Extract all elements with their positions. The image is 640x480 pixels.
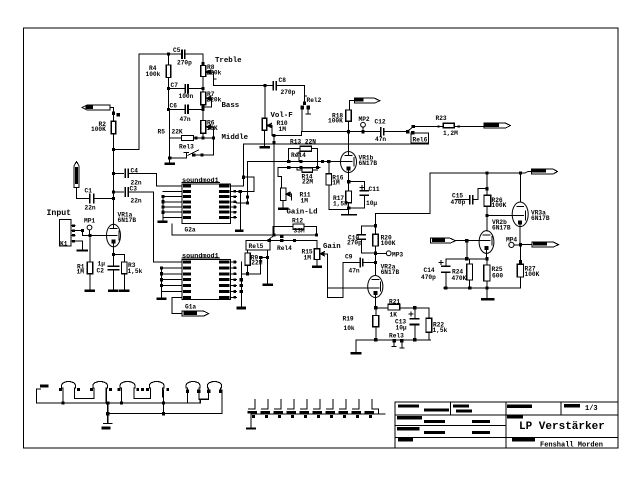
capacitor C12: [380, 128, 382, 136]
wire cathode VR2b row: [446, 258, 487, 260]
connector pin 1: [249, 400, 256, 410]
flag fill G1a: [184, 312, 198, 315]
wire plate to tone stack: [113, 54, 168, 149]
junction dots input area: [81, 229, 84, 232]
potentiometer R11 gain-ld: [281, 188, 287, 201]
svg-text:270p: 270p: [177, 60, 192, 67]
tube VR2b: [479, 231, 494, 254]
svg-text:6N17B: 6N17B: [359, 160, 378, 167]
supply flag B+ VR1b: [354, 98, 380, 103]
heater filament 1: [62, 382, 76, 403]
net flag G1a: [182, 311, 209, 316]
wire Rel5 to ground: [267, 250, 269, 284]
svg-text:470K: 470K: [452, 275, 467, 282]
heater filament 2: [93, 382, 108, 403]
svg-text:C2: C2: [97, 268, 105, 275]
svg-text:C1: C1: [85, 188, 93, 195]
cathode mark VR1b: [347, 166, 351, 170]
svg-text:MP2: MP2: [359, 116, 370, 123]
svg-text:270p: 270p: [281, 89, 296, 96]
resistor R27: [519, 245, 521, 265]
wire G2a row: [171, 224, 173, 235]
cathode mark VR2a: [373, 291, 377, 295]
heater ground bar: [102, 427, 111, 430]
svg-text:1µ: 1µ: [98, 261, 106, 268]
svg-text:C6: C6: [170, 103, 178, 110]
input net flag: [431, 238, 456, 243]
connector pin 9: [353, 400, 360, 410]
heater filament 3: [120, 382, 135, 403]
svg-text:Rel4: Rel4: [277, 245, 292, 252]
svg-text:22M: 22M: [302, 179, 313, 186]
heater pin dots: [59, 388, 62, 391]
connector pin 8: [340, 400, 347, 410]
relay contact Rel3 (lower): [393, 342, 395, 347]
svg-text:10K: 10K: [207, 125, 218, 132]
wire cathode VR1b: [349, 182, 365, 190]
svg-text:10k: 10k: [344, 325, 355, 332]
svg-text:LP Verstärker: LP Verstärker: [519, 421, 605, 433]
svg-text:1,5k: 1,5k: [433, 327, 448, 334]
svg-text:10µ: 10µ: [366, 200, 377, 207]
heater supply bracket: [37, 389, 41, 403]
IC1 pin bars: [183, 185, 191, 188]
capacitor C4: [113, 172, 123, 174]
ground IC1 left: [157, 220, 167, 223]
capacitor C1: [89, 195, 91, 203]
relay contact Rel6 jog: [408, 127, 413, 131]
connector pin 4: [288, 400, 295, 410]
heater pair connector 5-6: [199, 398, 209, 400]
wire ground row: [444, 287, 521, 289]
dot cathode: [347, 180, 350, 183]
flag fill: [86, 106, 94, 109]
svg-text:100K: 100K: [381, 240, 396, 247]
svg-text:Rel3: Rel3: [179, 143, 194, 150]
svg-text:Rel2: Rel2: [307, 97, 322, 104]
heater bus 2: [108, 413, 222, 415]
svg-text:600: 600: [492, 273, 503, 280]
dots plate row: [347, 130, 350, 133]
resistor R16: [328, 161, 330, 173]
ground IC2 right: [237, 307, 246, 310]
flag fill output: [484, 123, 499, 127]
svg-text:1K: 1K: [390, 312, 398, 319]
resistor R24: [469, 259, 471, 264]
svg-text:100n: 100n: [179, 93, 194, 100]
ground IC1 right: [235, 230, 244, 233]
svg-text:R19: R19: [343, 316, 354, 323]
svg-text:470p: 470p: [421, 274, 436, 281]
svg-text:100k: 100k: [146, 71, 161, 78]
test point MP4: [509, 242, 514, 247]
svg-text:1M: 1M: [304, 254, 312, 261]
title block redaction bars: [398, 405, 419, 408]
connector pin 2: [262, 400, 269, 410]
ground R1: [85, 290, 96, 293]
wire grid rail A: [248, 160, 341, 162]
wire VR1b plate row: [302, 131, 381, 133]
input jack K1: [59, 219, 71, 246]
wire VR3a grid to VR2b plate: [487, 215, 512, 217]
junction dots plate rail: [112, 148, 115, 151]
svg-text:Gain-Ld: Gain-Ld: [287, 209, 318, 217]
capacitor C15: [473, 189, 487, 200]
svg-text:Input: Input: [47, 209, 72, 218]
capacitor C6: [169, 108, 186, 110]
heater bus 1: [37, 402, 201, 404]
svg-text:Bass: Bass: [222, 102, 240, 110]
wire flag to R2: [110, 108, 113, 122]
capacitor C8: [272, 82, 274, 90]
heater pair connector 3-4: [134, 397, 151, 399]
relay contact Rel3: [184, 152, 189, 154]
svg-text:C8: C8: [279, 77, 287, 84]
title block: [395, 402, 618, 448]
resistor R17: [346, 191, 352, 203]
svg-text:K1: K1: [60, 241, 68, 248]
wire B+ top rail: [430, 172, 525, 174]
svg-text:R12: R12: [292, 218, 303, 225]
resistor R20: [373, 234, 379, 246]
heater drop h4 to bus2: [163, 390, 165, 414]
heater ground drop: [107, 403, 109, 424]
heater net label bar: [40, 385, 49, 388]
resistor R22: [428, 308, 430, 319]
potentiometer R6 middle: [201, 120, 206, 133]
capacitor C11: [360, 190, 368, 192]
tube VR1a: [107, 224, 121, 247]
connector bus: [251, 413, 385, 415]
dots Rel6: [406, 130, 409, 134]
svg-text:G2a: G2a: [185, 227, 196, 234]
svg-text:1,2M: 1,2M: [443, 130, 458, 137]
svg-text:R23: R23: [436, 115, 447, 122]
svg-text:47n: 47n: [180, 116, 191, 123]
connector pad dashes: [248, 411, 258, 414]
dot treble node: [263, 84, 266, 87]
capacitor C14: [445, 259, 447, 266]
capacitor C10: [362, 226, 376, 235]
label R11 Gain-Ld pot: [281, 188, 292, 207]
svg-text:Vol-F: Vol-F: [271, 112, 293, 120]
connector pin 5: [301, 400, 308, 410]
potentiometer R10 Vol-F: [262, 118, 267, 130]
resistor R13: [300, 146, 312, 151]
connector ground: [250, 414, 252, 429]
svg-text:Fenshall Morden: Fenshall Morden: [540, 442, 603, 450]
connector pin 7: [327, 400, 334, 410]
svg-text:1M: 1M: [279, 126, 287, 133]
resistor R2: [111, 121, 115, 134]
test point MP1: [87, 225, 92, 230]
potentiometer R8 treble: [201, 66, 206, 77]
resistor R12: [293, 224, 304, 229]
wire cathode bottom row: [356, 339, 431, 341]
net stub marks: [112, 112, 115, 115]
dots output section: [485, 172, 488, 175]
connector pin 10: [372, 400, 379, 410]
svg-text:Treble: Treble: [215, 57, 242, 65]
dot wiper: [272, 134, 275, 137]
Rel2 contact squares: [303, 102, 306, 105]
svg-text:22n: 22n: [85, 205, 96, 212]
svg-text:6N17B: 6N17B: [492, 224, 511, 231]
wire jack tip to grid: [75, 231, 106, 236]
svg-text:1,5k: 1,5k: [128, 268, 143, 275]
svg-text:22K: 22K: [172, 129, 183, 136]
svg-text:G1a: G1a: [185, 304, 196, 311]
wire flag to C1: [77, 188, 90, 199]
svg-text:R21: R21: [389, 299, 400, 306]
capacitor C5: [169, 53, 183, 55]
wire grid VR2a: [328, 287, 368, 289]
ticks R23: [437, 125, 439, 127]
dots VR2a: [374, 224, 377, 227]
svg-text:100K: 100K: [91, 126, 106, 133]
resistor R3: [122, 262, 128, 274]
svg-text:C11: C11: [369, 186, 380, 193]
svg-text:Rel4: Rel4: [291, 152, 306, 159]
ground bottom row: [351, 352, 362, 355]
svg-text:soundmod1: soundmod1: [182, 177, 219, 185]
wire C1 to plate rail: [94, 198, 114, 200]
wire to Vol pot: [264, 86, 266, 118]
ground C2: [108, 290, 119, 293]
supply flag B+ right: [531, 169, 557, 174]
wire plate rail: [112, 134, 114, 224]
tube VR3a: [519, 173, 521, 202]
svg-text:R5: R5: [158, 129, 166, 136]
ground R11: [278, 207, 288, 210]
capacitor C2: [113, 255, 115, 267]
ground Vol-F: [259, 146, 270, 149]
heater filament 6: [207, 382, 221, 400]
resistor R14: [302, 168, 313, 173]
svg-text:soundmod1: soundmod1: [182, 252, 219, 260]
relay box Rel5: [246, 240, 270, 250]
test point MP3: [376, 252, 387, 254]
resistor R18: [346, 110, 351, 121]
svg-text:22M: 22M: [251, 260, 262, 267]
wire treble out: [214, 85, 274, 87]
wire IC2 to R9: [241, 273, 247, 275]
heater bus junction dots: [61, 401, 64, 404]
wire gain row: [268, 239, 317, 241]
output net flag: [484, 123, 511, 128]
ground IC2 left: [157, 298, 167, 301]
wire B+ rail VR2a: [376, 173, 431, 234]
wire grid rail B: [278, 166, 320, 168]
svg-text:270p: 270p: [347, 240, 362, 247]
heater filament 5: [186, 382, 200, 403]
output net flag MP4 row: [520, 244, 532, 246]
wire C5 to treble pot: [202, 54, 204, 65]
svg-text:220k: 220k: [207, 70, 222, 77]
svg-text:6N17B: 6N17B: [381, 269, 400, 276]
svg-text:22n: 22n: [131, 198, 142, 205]
resistor R1: [89, 235, 91, 262]
ground Rel5: [262, 284, 273, 287]
dot cathode row: [374, 306, 377, 309]
heater filament 4: [149, 382, 164, 399]
ground R3: [119, 290, 130, 293]
svg-text:1M: 1M: [301, 198, 309, 205]
dots gain cluster: [272, 233, 275, 236]
wire grid VR2b: [456, 240, 480, 242]
dots tone stack: [167, 53, 170, 56]
connector pin 3: [275, 400, 282, 410]
potentiometer R15 gain: [316, 240, 318, 248]
svg-text:C3: C3: [130, 186, 138, 193]
wire jack sleeve: [75, 241, 82, 250]
svg-text:1/3: 1/3: [585, 405, 598, 413]
svg-text:100K: 100K: [525, 271, 540, 278]
svg-text:C14: C14: [424, 267, 435, 274]
capacitor C9: [343, 262, 360, 264]
resistor R25: [484, 265, 490, 281]
connector bus dots: [252, 415, 255, 418]
svg-text:Rel5: Rel5: [249, 243, 264, 250]
wire volume wiper: [274, 132, 302, 136]
svg-text:C9: C9: [345, 254, 353, 261]
svg-text:1M: 1M: [77, 269, 85, 276]
tube VR2a: [368, 276, 383, 298]
svg-text:6N17B: 6N17B: [118, 217, 137, 224]
IC2 pin bars: [183, 261, 191, 264]
left rail down to R5: [169, 108, 170, 110]
capacitor C3: [113, 191, 123, 193]
svg-text:Rel6: Rel6: [413, 137, 428, 144]
tube VR1b: [341, 152, 357, 173]
flag fills: [532, 170, 546, 173]
svg-text:Gain: Gain: [323, 243, 341, 251]
IC soundmod1 (lower): [182, 259, 231, 299]
ground output row: [481, 298, 494, 301]
svg-text:MP3: MP3: [392, 251, 403, 258]
resistor R21: [376, 307, 388, 309]
wire rail under Rel6: [244, 143, 429, 145]
svg-text:47n: 47n: [375, 136, 386, 143]
ground R5: [165, 163, 176, 166]
test point MP2: [361, 122, 366, 127]
relay box Rel6: [411, 133, 429, 143]
svg-text:MP1: MP1: [84, 218, 95, 225]
cathode mark VR1a: [112, 240, 116, 244]
flag fill B+: [355, 99, 364, 102]
svg-text:100K: 100K: [328, 118, 343, 125]
svg-text:MP4: MP4: [506, 237, 517, 244]
potentiometer R7 bass: [201, 92, 206, 105]
capacitor C13: [414, 308, 416, 319]
resistor R5: [170, 137, 182, 139]
svg-text:C12: C12: [375, 119, 386, 126]
svg-text:Middle: Middle: [222, 134, 249, 142]
svg-text:33M: 33M: [294, 227, 305, 234]
svg-text:R13 22N: R13 22N: [290, 139, 316, 146]
resistor R23: [443, 123, 454, 128]
ground R15: [312, 266, 322, 269]
cathode marks: [485, 246, 489, 250]
connector pin 6: [314, 400, 321, 410]
wire cathode: [113, 247, 115, 255]
svg-text:Rel3: Rel3: [389, 333, 404, 340]
wire R7 bottom to R6: [202, 105, 204, 121]
relay contact Rel4b arm: [268, 235, 274, 240]
svg-text:470p: 470p: [451, 199, 466, 206]
svg-text:C7: C7: [171, 82, 179, 89]
wire rail B to R11: [278, 167, 282, 188]
svg-text:C4: C4: [131, 168, 139, 175]
flag fill: [75, 167, 78, 184]
resistor R9: [247, 250, 249, 253]
svg-text:1M: 1M: [332, 180, 340, 187]
svg-text:C5: C5: [173, 47, 181, 54]
heater pair connector 1-2: [74, 397, 94, 399]
relay contact Rel2: [304, 86, 306, 104]
relay contact Rel4a: [298, 152, 300, 161]
supply flag (left pointing): [82, 105, 110, 110]
svg-text:6N17B: 6N17B: [531, 215, 550, 222]
svg-text:1,5K: 1,5K: [333, 201, 348, 208]
svg-text:220k: 220k: [207, 97, 222, 104]
svg-text:100K: 100K: [492, 202, 507, 209]
dots grid rails: [287, 160, 290, 163]
capacitor C7: [169, 88, 186, 90]
left rail with resistor R4: [168, 54, 170, 65]
svg-text:47n: 47n: [349, 268, 360, 275]
resistor R19: [375, 308, 377, 316]
net flag (vertical): [74, 162, 79, 188]
wire to G1a flag: [172, 297, 182, 313]
resistor R26: [486, 173, 488, 195]
wire R8 bottom to R7: [202, 77, 204, 93]
IC soundmod1 (upper): [182, 184, 231, 223]
ground jack sleeve: [78, 249, 88, 251]
svg-text:10µ: 10µ: [396, 325, 407, 332]
